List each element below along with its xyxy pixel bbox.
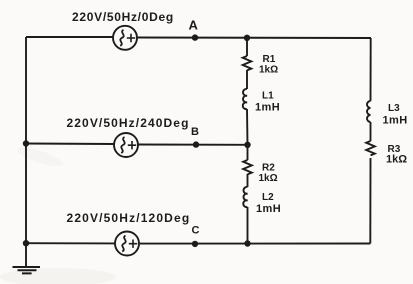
wire phase A top horizontal (source V1 to right bus) [137, 37, 371, 40]
ac source V1 circle [113, 26, 137, 50]
resistor R3 zigzag [366, 141, 375, 155]
svg-text:L2: L2 [262, 192, 274, 203]
ac source V2 plus sign [128, 141, 136, 149]
resistor R2 zigzag [243, 160, 252, 174]
wire branch1 top (node A row down to R1) [246, 38, 248, 57]
wire phase B horizontal (source V2 to branch junction) [138, 144, 248, 146]
svg-text:1kΩ: 1kΩ [259, 173, 278, 184]
wire branch1 between R1 and L1 [246, 70, 248, 89]
svg-text:220V/50Hz/240Deg: 220V/50Hz/240Deg [67, 116, 190, 130]
svg-text:A: A [189, 18, 199, 33]
junction node A dot [192, 34, 198, 40]
junction dot branch phase C [244, 240, 250, 246]
junction node C dot [192, 241, 198, 247]
svg-text:R1: R1 [263, 54, 276, 65]
wire right bus upper (node A corner to L3) [370, 38, 372, 101]
wire left bus vertical [25, 37, 27, 266]
ac source V3 sine squiggle [122, 236, 126, 252]
wire right bus lower (R3 to bottom corner) [369, 158, 371, 244]
wire branch2 bottom (L2 to phase C row) [247, 207, 249, 244]
wire phase B horizontal (left bus to source V2) [26, 143, 114, 146]
svg-text:R2: R2 [262, 163, 275, 174]
svg-text:C: C [192, 225, 200, 237]
svg-text:220V/50Hz/0Deg: 220V/50Hz/0Deg [72, 10, 174, 24]
wire branch1 bottom (L1 to phase B row) [246, 109, 249, 145]
junction dot left bus phase B [23, 140, 29, 146]
junction dot left bus phase C [23, 240, 29, 246]
wire phase C bottom horizontal (source V3 to bottom-right corner) [139, 243, 370, 245]
wire branch2 between R2 and L2 [247, 174, 249, 187]
junction dot branch1 top [244, 35, 250, 41]
svg-text:1mH: 1mH [256, 203, 281, 215]
paper smudge bottom-left [0, 268, 116, 284]
svg-text:1kΩ: 1kΩ [386, 154, 407, 166]
svg-text:1mH: 1mH [383, 115, 408, 127]
svg-text:L3: L3 [388, 103, 400, 114]
ac source V2 sine squiggle [121, 137, 125, 153]
inductor L3 coil [367, 101, 371, 122]
ac source V3 plus sign [129, 240, 137, 248]
resistor R1 zigzag [243, 56, 252, 70]
ac source V1 plus sign [127, 34, 135, 42]
wire right bus between L3 and R3 [370, 122, 372, 141]
wire branch2 top (phase B row down to R2) [247, 145, 249, 160]
wire phase A top horizontal (left of source V1) [26, 36, 113, 38]
svg-text:1kΩ: 1kΩ [259, 65, 278, 76]
ac source V2 circle [114, 133, 138, 157]
svg-text:220V/50Hz/120Deg: 220V/50Hz/120Deg [67, 211, 191, 225]
paper smudge left-mid [15, 144, 64, 170]
svg-text:L1: L1 [262, 91, 274, 102]
ground symbol [13, 267, 41, 274]
svg-text:B: B [191, 126, 199, 138]
inductor L1 coil [243, 89, 247, 109]
junction node B dot [193, 141, 199, 147]
wire phase C bottom horizontal (left bus to source V3) [26, 242, 115, 244]
svg-text:1mH: 1mH [255, 102, 280, 114]
ac source V1 sine squiggle [120, 30, 124, 46]
junction dot branch phase B [244, 142, 250, 148]
inductor L2 coil [243, 187, 247, 207]
ac source V3 circle [115, 232, 139, 256]
